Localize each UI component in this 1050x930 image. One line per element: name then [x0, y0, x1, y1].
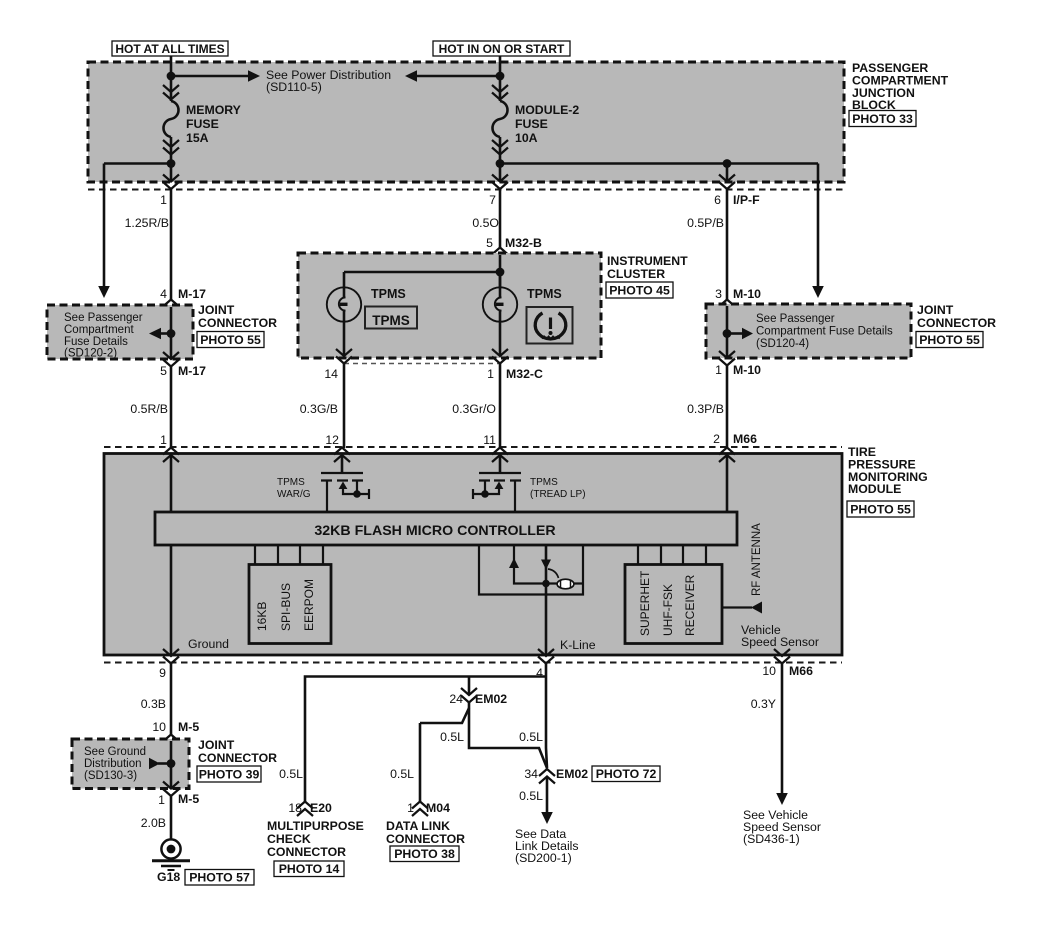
svg-text:0.5P/B: 0.5P/B — [687, 216, 724, 230]
label JOINT CONNECTOR PHOTO 55 (left) — [197, 303, 277, 348]
lamp TPMS warning (right) — [483, 272, 517, 322]
svg-text:HOT AT ALL TIMES: HOT AT ALL TIMES — [115, 42, 224, 56]
svg-text:12: 12 — [325, 433, 339, 447]
svg-text:PHOTO 57: PHOTO 57 — [189, 871, 250, 885]
wire pin11 to transistor2 — [499, 455, 502, 473]
wire through joint connector SD130-3 — [170, 741, 173, 789]
svg-text:PHOTO 39: PHOTO 39 — [199, 767, 260, 781]
node SD120-2 tap with left arrow — [149, 328, 175, 340]
svg-text:1.25R/B: 1.25R/B — [125, 216, 169, 230]
svg-text:M-17: M-17 — [178, 287, 206, 301]
wire pin12 to transistor1 — [341, 455, 344, 473]
svg-text:34: 34 — [524, 767, 538, 781]
wire right branch down arrow to SD120-4 — [812, 164, 824, 299]
svg-text:Compartment: Compartment — [64, 324, 134, 336]
svg-text:6: 6 — [714, 193, 721, 207]
svg-text:PHOTO 38: PHOTO 38 — [394, 847, 455, 861]
svg-text:CLUSTER: CLUSTER — [607, 267, 665, 281]
svg-text:PHOTO 72: PHOTO 72 — [596, 767, 657, 781]
svg-text:PHOTO 33: PHOTO 33 — [852, 112, 913, 126]
module top connector dashed line — [104, 446, 842, 448]
label See Power Distribution — [266, 68, 391, 94]
svg-text:2.0B: 2.0B — [141, 816, 166, 830]
svg-text:MULTIPURPOSE: MULTIPURPOSE — [267, 819, 364, 833]
wire 0.5R/B — [170, 367, 173, 449]
joint connector SD120-4 box — [706, 304, 911, 358]
svg-text:(SD110-5): (SD110-5) — [266, 80, 322, 94]
svg-text:M32-B: M32-B — [505, 236, 542, 250]
svg-text:CONNECTOR: CONNECTOR — [267, 845, 346, 859]
svg-text:UHF-FSK: UHF-FSK — [661, 584, 675, 636]
svg-text:(TREAD LP): (TREAD LP) — [530, 489, 586, 500]
svg-text:14: 14 — [324, 367, 338, 381]
wire 0.3B — [170, 664, 173, 736]
wire hot-at-all-times to fuse — [170, 56, 173, 101]
connector 1 M-5 — [163, 782, 179, 797]
svg-text:CONNECTOR: CONNECTOR — [386, 832, 465, 846]
svg-text:M32-C: M32-C — [506, 367, 543, 381]
svg-text:1: 1 — [487, 367, 494, 381]
label JOINT CONNECTOR PHOTO 39 — [197, 738, 277, 782]
svg-text:FUSE: FUSE — [515, 117, 548, 131]
wire into cluster — [499, 255, 502, 288]
svg-text:10: 10 — [762, 664, 776, 678]
wire 0.5P/B — [726, 189, 729, 300]
svg-text:RF ANTENNA: RF ANTENNA — [751, 523, 763, 596]
svg-text:(SD130-3): (SD130-3) — [84, 770, 137, 782]
label DATA LINK CONNECTOR PHOTO 38 — [386, 819, 465, 862]
module bottom connector dashed line — [104, 662, 842, 664]
wire EM02 drop — [469, 677, 547, 769]
label HOT IN ON OR START — [433, 41, 570, 56]
pin 6 I/P-F junction block — [719, 175, 735, 190]
pin 2 M66 module — [719, 448, 735, 463]
label MULTIPURPOSE CHECK CONNECTOR PHOTO 14 — [267, 819, 364, 877]
svg-text:10: 10 — [152, 720, 166, 734]
svg-text:See Ground: See Ground — [84, 746, 146, 758]
fuse MODULE-2 FUSE 10A — [492, 85, 508, 155]
connector 10 M-5 — [163, 735, 179, 750]
svg-text:1: 1 — [158, 793, 165, 807]
connector 5 M-17 — [163, 352, 179, 367]
wire hot-in-on to fuse2 — [499, 56, 502, 101]
wire fuse1 bottom — [170, 137, 173, 181]
svg-text:9: 9 — [159, 666, 166, 680]
wire fuse2 bottom — [499, 137, 502, 181]
svg-text:E20: E20 — [310, 801, 332, 815]
svg-text:CONNECTOR: CONNECTOR — [198, 751, 277, 765]
svg-text:0.5L: 0.5L — [279, 767, 303, 781]
node I/P-F tap — [723, 159, 732, 168]
wire left branch down arrow to SD120-2 — [98, 164, 110, 299]
fuse MEMORY FUSE 15A — [163, 85, 179, 155]
svg-text:(SD200-1): (SD200-1) — [515, 851, 572, 865]
svg-text:32KB FLASH MICRO CONTROLLER: 32KB FLASH MICRO CONTROLLER — [314, 523, 555, 539]
node fuse2 bottom tap — [496, 159, 505, 168]
svg-text:MEMORY: MEMORY — [186, 103, 241, 117]
svg-text:EM02: EM02 — [475, 692, 507, 706]
connector 2 M66 — [713, 432, 757, 446]
K-line driver left leg with up arrow — [509, 545, 583, 584]
joint connector SD130-3 box — [72, 739, 189, 789]
svg-text:PHOTO 45: PHOTO 45 — [609, 283, 670, 297]
wire I/P-F drop — [726, 164, 729, 182]
svg-text:0.5L: 0.5L — [390, 767, 414, 781]
wire to data link details arrow — [541, 777, 553, 825]
svg-text:G18: G18 — [157, 870, 180, 884]
svg-text:PHOTO 55: PHOTO 55 — [200, 333, 261, 347]
svg-text:CHECK: CHECK — [267, 832, 311, 846]
wire pin2 to micro controller — [726, 455, 729, 513]
pin 4 module bottom — [538, 649, 554, 664]
svg-text:(SD120-2): (SD120-2) — [64, 348, 117, 360]
svg-text:4: 4 — [160, 287, 167, 301]
joint connector SD120-2 box — [47, 305, 193, 360]
svg-text:M04: M04 — [426, 801, 450, 815]
svg-text:M-17: M-17 — [178, 364, 206, 378]
wire 0.3P/B — [726, 366, 729, 449]
svg-text:7: 7 — [489, 193, 496, 207]
wire see-power-distribution left arrow from fuse2 tap — [405, 70, 500, 82]
pin 12 module — [334, 448, 350, 463]
svg-text:CONNECTOR: CONNECTOR — [917, 316, 996, 330]
K-line transistor oval — [548, 569, 574, 589]
K-line node — [542, 580, 550, 588]
wire micro controller to ground pin — [170, 545, 173, 655]
node fuse1 top tap — [167, 72, 176, 81]
wire pin1 to micro controller — [170, 455, 173, 513]
wires micro controller to memory box — [255, 545, 323, 565]
label See Vehicle Speed Sensor — [743, 808, 821, 846]
svg-text:JOINT: JOINT — [917, 303, 954, 317]
svg-text:INSTRUMENT: INSTRUMENT — [607, 254, 688, 268]
ground G18 — [152, 839, 190, 870]
wire K-line down from pin 4 — [546, 664, 547, 769]
label HOT AT ALL TIMES — [112, 41, 228, 56]
svg-text:24: 24 — [449, 692, 463, 706]
wire tap to see-power-distribution (right arrow) — [171, 70, 260, 82]
svg-text:1: 1 — [160, 433, 167, 447]
connector 1 M-10 — [719, 351, 735, 366]
svg-text:0.5O: 0.5O — [472, 216, 499, 230]
svg-text:0.3Y: 0.3Y — [751, 697, 776, 711]
svg-text:18: 18 — [288, 801, 302, 815]
wire bus to right inside junction block — [500, 162, 818, 165]
memory box 16KB SPI-BUS EERPOM — [249, 565, 331, 644]
svg-text:11: 11 — [483, 433, 496, 447]
label Vehicle Speed Sensor — [741, 623, 819, 649]
svg-text:JOINT: JOINT — [198, 303, 235, 317]
label INSTRUMENT CLUSTER PHOTO 45 — [606, 254, 688, 298]
32KB flash micro controller box — [155, 512, 737, 545]
svg-text:RECEIVER: RECEIVER — [683, 574, 697, 636]
pin 1 module — [163, 448, 179, 463]
svg-text:TPMS: TPMS — [277, 477, 305, 488]
svg-text:PHOTO 55: PHOTO 55 — [919, 333, 980, 347]
label TPMS (TREAD LP) — [530, 477, 586, 500]
svg-text:16KB: 16KB — [255, 602, 269, 631]
svg-text:2: 2 — [713, 432, 720, 446]
label TPMS WAR/G — [277, 477, 311, 500]
wire 0.5O — [499, 189, 502, 248]
wire lamp2 down — [499, 321, 502, 356]
svg-text:SPI-BUS: SPI-BUS — [279, 583, 293, 631]
connector 3 M-10 — [719, 300, 735, 315]
RF antenna symbol — [722, 523, 763, 614]
wire through joint connector SD120-2 — [170, 307, 173, 359]
label MEMORY FUSE 15A — [186, 103, 241, 145]
wire 0.3Gr/O — [499, 364, 502, 449]
wire 0.3Y to vehicle speed sensor — [776, 664, 788, 806]
svg-text:MODULE: MODULE — [848, 482, 901, 496]
svg-text:Distribution: Distribution — [84, 758, 142, 770]
node SD120-4 tap with right arrow — [723, 328, 753, 340]
K-line driver bracket — [479, 545, 583, 595]
svg-text:0.3Gr/O: 0.3Gr/O — [452, 402, 496, 416]
svg-text:WAR/G: WAR/G — [277, 489, 311, 500]
svg-text:0.3G/B: 0.3G/B — [300, 402, 338, 416]
svg-text:5: 5 — [486, 236, 493, 250]
svg-text:3: 3 — [715, 287, 722, 301]
receiver box SUPERHET UHF-FSK RECEIVER — [625, 565, 722, 644]
svg-text:15A: 15A — [186, 131, 209, 145]
svg-text:M-5: M-5 — [178, 720, 199, 734]
pin 7 junction block — [492, 175, 508, 190]
svg-text:CONNECTOR: CONNECTOR — [198, 316, 277, 330]
pin 14 cluster — [336, 349, 352, 364]
pin 1 M32-C cluster — [492, 349, 508, 364]
wires micro controller to receiver box — [638, 545, 706, 565]
svg-text:See Passenger: See Passenger — [64, 312, 143, 324]
svg-text:5: 5 — [160, 364, 167, 378]
svg-text:(SD436-1): (SD436-1) — [743, 832, 800, 846]
svg-text:(SD120-4): (SD120-4) — [756, 338, 809, 350]
svg-text:EM02: EM02 — [556, 767, 588, 781]
connector 34 EM02 PHOTO 72 — [539, 769, 555, 784]
svg-text:0.5L: 0.5L — [519, 789, 543, 803]
svg-text:M66: M66 — [733, 432, 757, 446]
wire branch to check connector (horizontal) — [469, 675, 546, 678]
wire 0.3G/B — [343, 364, 346, 449]
svg-text:Fuse Details: Fuse Details — [64, 336, 128, 348]
svg-text:0.5L: 0.5L — [519, 730, 543, 744]
junction block connector dashed line — [88, 189, 845, 191]
svg-text:Speed Sensor: Speed Sensor — [741, 635, 819, 649]
svg-text:K-Line: K-Line — [560, 638, 596, 652]
label See Data Link Details — [515, 827, 579, 865]
node cluster split — [496, 268, 505, 277]
connector 1 M04 — [412, 802, 428, 817]
label TIRE PRESSURE MONITORING MODULE PHOTO 55 — [847, 445, 928, 517]
label JOINT CONNECTOR PHOTO 55 (right) — [916, 303, 996, 348]
svg-text:Ground: Ground — [188, 637, 229, 651]
pin 10 M66 module bottom — [774, 649, 790, 664]
svg-text:10A: 10A — [515, 131, 538, 145]
TPMS telltale icon box — [527, 307, 573, 344]
svg-text:TPMS: TPMS — [527, 287, 562, 301]
svg-text:M-10: M-10 — [733, 287, 761, 301]
svg-text:M66: M66 — [789, 664, 813, 678]
wire lamp1 down — [343, 321, 346, 356]
svg-text:I/P-F: I/P-F — [733, 193, 760, 207]
transistor TPMS (TREAD LP) driver — [473, 473, 521, 513]
TPMS text telltale box — [365, 307, 417, 329]
lamp TPMS warning (left) — [327, 272, 361, 322]
label G18 PHOTO 57 — [157, 870, 254, 886]
transistor TPMS WAR/G driver — [321, 473, 369, 513]
svg-text:TPMS: TPMS — [371, 287, 406, 301]
svg-text:SUPERHET: SUPERHET — [638, 570, 652, 636]
node fuse1 bottom tap — [167, 159, 176, 168]
svg-text:0.3P/B: 0.3P/B — [687, 402, 724, 416]
svg-text:1: 1 — [715, 363, 722, 377]
svg-text:0.5R/B: 0.5R/B — [130, 402, 168, 416]
svg-text:1: 1 — [160, 193, 167, 207]
svg-text:EERPOM: EERPOM — [302, 579, 316, 631]
svg-text:0.3B: 0.3B — [141, 697, 166, 711]
svg-text:PHOTO 55: PHOTO 55 — [850, 502, 911, 516]
svg-text:FUSE: FUSE — [186, 117, 219, 131]
svg-text:DATA LINK: DATA LINK — [386, 819, 450, 833]
K-line main wire with down arrow — [541, 545, 551, 655]
svg-text:0.5L: 0.5L — [440, 730, 464, 744]
tire pressure monitoring module box — [104, 454, 842, 656]
svg-text:M-10: M-10 — [733, 363, 761, 377]
wire multipurpose check connector branch — [305, 677, 469, 803]
connector 4 M-17 — [163, 300, 179, 315]
svg-text:PHOTO 14: PHOTO 14 — [279, 862, 340, 876]
svg-text:M-5: M-5 — [178, 792, 199, 806]
svg-text:Compartment Fuse Details: Compartment Fuse Details — [756, 326, 893, 338]
wire data link branch — [420, 708, 469, 802]
svg-text:1: 1 — [407, 801, 414, 815]
svg-text:TPMS: TPMS — [372, 313, 410, 328]
svg-text:JOINT: JOINT — [198, 738, 235, 752]
svg-text:See Passenger: See Passenger — [756, 313, 835, 325]
svg-text:TPMS: TPMS — [530, 477, 558, 488]
label PASSENGER COMPARTMENT JUNCTION BLOCK — [849, 61, 949, 127]
node fuse2 top tap — [496, 72, 505, 81]
connector 5 M32-B — [492, 248, 508, 263]
wire cluster horizontal to lamp1 — [344, 271, 500, 274]
label MODULE-2 FUSE 10A — [515, 103, 579, 145]
cluster connector dashed link — [344, 363, 501, 365]
svg-text:MODULE-2: MODULE-2 — [515, 103, 579, 117]
instrument cluster box — [298, 253, 601, 358]
connector 18 E20 — [297, 802, 313, 817]
wire 2.0B — [170, 796, 173, 839]
node SD130-3 tap with right arrow — [149, 758, 175, 770]
svg-text:HOT IN ON OR START: HOT IN ON OR START — [439, 42, 565, 56]
pin 9 module bottom — [163, 649, 179, 664]
wire left branch horizontal — [104, 162, 171, 165]
svg-text:4: 4 — [536, 666, 543, 680]
passenger compartment junction block — [88, 62, 844, 182]
wire 1.25R/B — [170, 189, 173, 300]
connector 24 EM02 — [461, 688, 477, 703]
pin 11 module — [492, 448, 508, 463]
pin 1 junction block (chevrons) — [163, 175, 179, 190]
wire through joint connector SD120-4 — [726, 306, 729, 358]
